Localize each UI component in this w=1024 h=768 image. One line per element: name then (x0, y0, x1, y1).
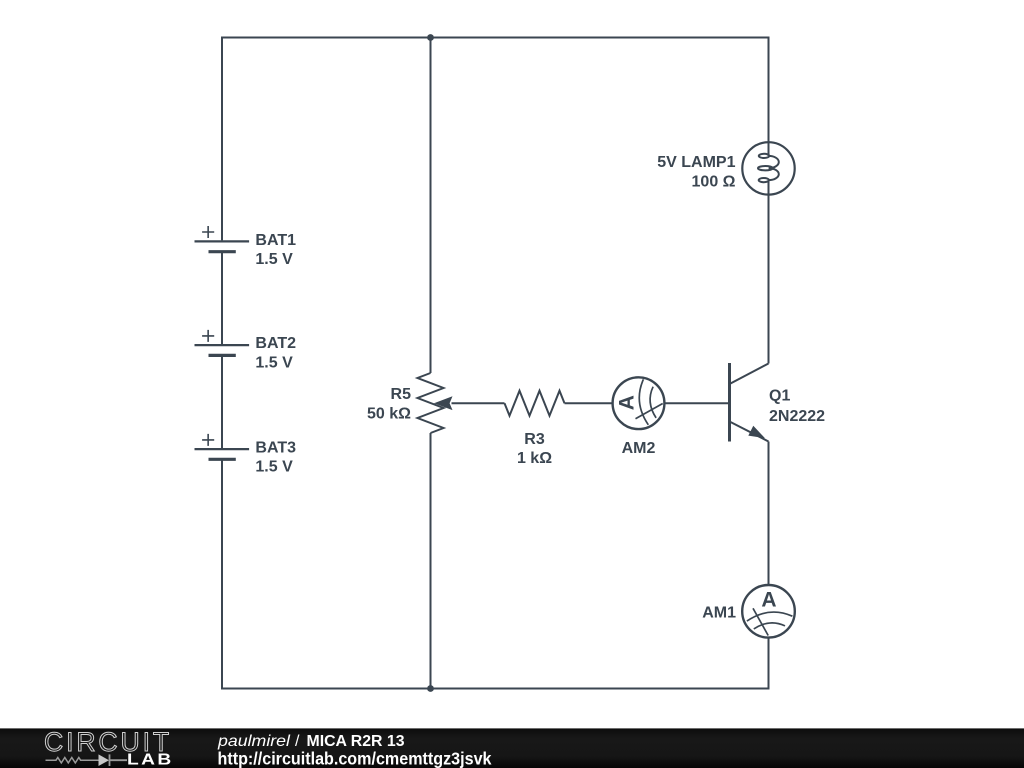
ammeter AM1 (742, 585, 795, 638)
battery BAT2 (195, 330, 250, 356)
svg-text:BAT2: BAT2 (255, 335, 296, 352)
wire AM2 to Q1 base (664, 402, 728, 404)
wire R3 to AM2 (565, 402, 613, 404)
wire AM1 to bottom rail (768, 638, 770, 690)
svg-text:BAT1: BAT1 (255, 232, 296, 249)
wire lamp to Q1 collector (768, 180, 770, 363)
svg-text:1.5 V: 1.5 V (255, 459, 293, 476)
transistor Q1 (730, 363, 769, 442)
svg-text:50 kΩ: 50 kΩ (367, 406, 411, 423)
wire left bottom segment (221, 459, 223, 689)
potentiometer R5 (418, 373, 453, 433)
ammeter AM2 (613, 377, 665, 429)
logo resistor-diode squiggle (46, 754, 128, 766)
wire Q1 emitter to AM1 (768, 442, 770, 586)
wire wiper to R3 (452, 402, 505, 404)
wire middle top segment (430, 37, 432, 374)
lamp LAMP1 (742, 142, 794, 194)
svg-text:5V LAMP1: 5V LAMP1 (657, 154, 735, 171)
wire top rail (221, 37, 770, 39)
battery BAT3 (195, 434, 250, 459)
wire between BAT1 and BAT2 (221, 252, 223, 344)
wire middle bottom segment (430, 433, 432, 690)
svg-text:100 Ω: 100 Ω (692, 174, 736, 191)
svg-text:AM1: AM1 (702, 605, 736, 622)
svg-text:A: A (761, 589, 776, 612)
svg-text:Q1: Q1 (769, 388, 790, 405)
svg-text:1 kΩ: 1 kΩ (517, 450, 552, 467)
svg-text:A: A (616, 395, 639, 410)
node junction top (427, 34, 434, 41)
svg-text:1.5 V: 1.5 V (255, 251, 293, 268)
resistor R3 (505, 391, 565, 416)
wire left top segment (221, 37, 223, 241)
svg-text:1.5 V: 1.5 V (255, 355, 293, 372)
svg-text:BAT3: BAT3 (255, 439, 296, 456)
wire between BAT2 and BAT3 (221, 355, 223, 448)
svg-text:R5: R5 (391, 386, 412, 403)
svg-text:AM2: AM2 (622, 440, 656, 457)
svg-text:R3: R3 (524, 431, 545, 448)
svg-text:http://circuitlab.com/cmemttgz: http://circuitlab.com/cmemttgz3jsvk (218, 748, 492, 768)
wire bottom rail (221, 688, 770, 690)
battery BAT1 (195, 226, 250, 252)
svg-text:LAB: LAB (127, 752, 174, 768)
wire right top segment (768, 37, 770, 156)
svg-text:2N2222: 2N2222 (769, 408, 825, 425)
node junction bottom (427, 685, 434, 692)
